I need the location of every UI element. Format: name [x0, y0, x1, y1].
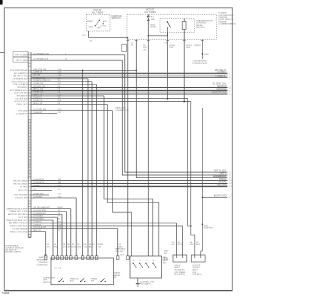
svg-text:SENSOR GND: SENSOR GND — [211, 93, 227, 95]
wire vertical x=53.0 — [52, 220, 54, 256]
PDC bottom connector stubs and labels — [126, 40, 129, 42]
svg-text:TT PRL: TT PRL — [20, 187, 28, 189]
svg-text:SYS PWR RELAY: SYS PWR RELAY — [10, 69, 28, 72]
svg-text:18 VT/WT SPL: 18 VT/WT SPL — [33, 109, 47, 111]
wire vertical x=117.7 — [117, 229, 119, 256]
svg-text:18 DG: 18 DG — [150, 27, 156, 29]
svg-text:RUN: RUN — [89, 26, 94, 28]
svg-text:4X4 LOW SW: 4X4 LOW SW — [14, 93, 28, 95]
svg-text:TRS ARM2: TRS ARM2 — [17, 86, 29, 89]
svg-text:TRS OVR ALM: TRS OVR ALM — [13, 83, 28, 86]
wire fuse to relay — [148, 20, 167, 36]
wire row to right edge y=90.9 — [31, 90, 228, 92]
relay ground wire (broken with C100 label) — [201, 39, 203, 59]
svg-text:LG/BK 19: LG/BK 19 — [33, 72, 43, 74]
wire vertical x=45.7 — [45, 232, 47, 256]
svg-text:TRT T+ CKT: TRT T+ CKT — [214, 170, 227, 172]
svg-text:JUMPER AT BLK PNP: JUMPER AT BLK PNP — [6, 207, 28, 210]
svg-text:DB 738: DB 738 — [33, 75, 41, 77]
svg-text:EVO BRAKE SOL: EVO BRAKE SOL — [10, 89, 28, 92]
svg-text:BK/LG 58: BK/LG 58 — [33, 103, 43, 105]
svg-text:TRT T- (BM): TRT T- (BM) — [16, 60, 28, 62]
svg-text:TRD SW BAT: TRD SW BAT — [14, 194, 28, 197]
wire vertical x=57.5 — [57, 217, 59, 256]
svg-text:VLV BODY): VLV BODY) — [174, 274, 185, 276]
svg-text:PRESS: PRESS — [219, 179, 227, 181]
svg-text:ALL TIMES: ALL TIMES — [92, 11, 104, 14]
svg-text:LG/: LG/ — [172, 244, 176, 246]
svg-text:(IN PDC): (IN PDC) — [196, 27, 205, 29]
wire vertical x=182.4 — [181, 226, 183, 255]
svg-text:L/R SOL PW: L/R SOL PW — [15, 198, 28, 200]
svg-text:20 ORN/BLK/LB: 20 ORN/BLK/LB — [33, 59, 49, 61]
svg-text:CONNECTOR: CONNECTOR — [115, 110, 129, 112]
wire row to right edge y=180.5 — [31, 180, 228, 182]
svg-text:2: 2 — [139, 260, 140, 262]
relay ground wire resumes to right edge row — [202, 108, 227, 197]
svg-text:1: 1 — [146, 260, 147, 262]
inline connector on ignition feed — [122, 44, 127, 51]
svg-text:OR 18 LG/BK 941: OR 18 LG/BK 941 — [33, 207, 50, 209]
label boxes for first two rows — [13, 52, 28, 57]
svg-text:PK/: PK/ — [54, 247, 58, 249]
overdrive off switch symbols — [58, 281, 59, 282]
svg-text:18 BK/WT: 18 BK/WT — [33, 112, 43, 114]
wire vertical x=96.6 — [96, 85, 98, 257]
svg-text:SW: SW — [164, 253, 167, 255]
wire: row 104.4 to TRS via corner — [107, 104, 158, 256]
svg-text:PNDL OUT: PNDL OUT — [17, 104, 28, 106]
wire vertical x=76.2 — [75, 198, 77, 256]
ground symbol G4 — [136, 283, 140, 285]
svg-text:LG: LG — [33, 189, 36, 191]
svg-text:18 DB/YL 299 2.5L: 18 DB/YL 299 2.5L — [33, 80, 51, 82]
svg-text:OD P SW: OD P SW — [18, 217, 28, 219]
svg-text:SW: SW — [91, 281, 94, 283]
svg-text:SHLD CTRL GND: SHLD CTRL GND — [10, 231, 28, 233]
relay output wires below PDC — [167, 33, 169, 100]
PCM connector strip — [27, 52, 29, 238]
svg-text:TRD NO (BM2): TRD NO (BM2) — [13, 180, 28, 182]
wire row to right edge y=87.7 — [31, 87, 228, 89]
wire row to right edge y=183.3 — [31, 182, 228, 184]
svg-text:ALL TIMES: ALL TIMES — [144, 11, 156, 14]
svg-text:START: START — [87, 20, 94, 23]
svg-text:BK/WT GND: BK/WT GND — [214, 196, 227, 198]
svg-text:GOV PR SOL: GOV PR SOL — [14, 101, 28, 103]
wire row to right edge y=73.8 — [31, 73, 228, 75]
svg-text:SPD CTL: SPD CTL — [18, 190, 28, 192]
wire: row 110.7 to TRS via corner — [113, 111, 132, 256]
svg-text:TRT T-: TRT T- — [220, 173, 227, 175]
svg-text:51996: 51996 — [2, 291, 10, 295]
relay contact — [167, 21, 168, 22]
svg-text:SENSOR: SENSOR — [217, 86, 227, 88]
wire vertical x=62.0 — [61, 214, 63, 256]
transmission control relay dashed box — [160, 19, 195, 33]
transmission range switch box — [130, 256, 162, 278]
svg-text:LG/WT4: LG/WT4 — [33, 224, 41, 226]
svg-text:OD OFF SW: OD OFF SW — [15, 98, 28, 100]
svg-text:SIGNAL: SIGNAL — [218, 181, 227, 184]
fuse F4 — [147, 14, 149, 16]
connector pin ticks — [28, 119, 31, 121]
svg-text:CONSOLE): CONSOLE) — [37, 265, 48, 267]
svg-text:OR6 V0.8 238: OR6 V0.8 238 — [33, 69, 47, 71]
svg-text:BATT/OD SW FEED: BATT/OD SW FEED — [8, 213, 28, 216]
wire row to right edge y=77.5 — [31, 77, 228, 79]
svg-text:20 ORN/BLK 941: 20 ORN/BLK 941 — [33, 53, 50, 55]
svg-text:18 OR/BK/WT: 18 OR/BK/WT — [33, 213, 47, 215]
wire row to right edge y=186.1 — [31, 185, 228, 187]
svg-text:BK/LT B: BK/LT B — [33, 230, 41, 232]
svg-text:POS SW: POS SW — [115, 251, 123, 253]
svg-text:FUSED B+: FUSED B+ — [215, 76, 227, 78]
svg-text:VT/: VT/ — [47, 247, 51, 249]
svg-text:5V SUPPLY: 5V SUPPLY — [16, 113, 28, 115]
left margin tick — [0, 51, 4, 53]
svg-text:TRT T+ (BM): TRT T+ (BM) — [15, 55, 28, 57]
frame bottom heavy line — [4, 290, 232, 292]
svg-text:OD PRESS SW: OD PRESS SW — [12, 79, 28, 81]
PDC dashed box — [127, 14, 217, 39]
svg-text:VLV BDY): VLV BDY) — [193, 274, 202, 276]
svg-text:OR/: OR/ — [190, 244, 194, 246]
solenoid connector box 1 — [173, 255, 187, 262]
svg-text:RD41: RD41 — [58, 207, 64, 209]
wire vertical x=88.0 — [87, 79, 89, 256]
svg-text:BR/YL 710: BR/YL 710 — [33, 89, 44, 91]
TRS contacts — [133, 263, 134, 264]
svg-text:TPS-OVRD SOL: TPS-OVRD SOL — [11, 81, 28, 83]
wire fuse line down (to TRS) — [147, 36, 149, 256]
svg-text:IGN SW OUT: IGN SW OUT — [213, 176, 227, 178]
wire: PDC output down then right, junction with row 70.3 — [136, 40, 227, 178]
svg-text:18 YL/BK4: 18 YL/BK4 — [33, 216, 44, 218]
svg-text:18 PK/BK: 18 PK/BK — [33, 196, 43, 198]
svg-text:PKG (BATT): PKG (BATT) — [140, 283, 151, 286]
svg-text:TRD NC (BM2): TRD NC (BM2) — [13, 183, 28, 185]
svg-text:SWITCH: SWITCH — [43, 282, 51, 284]
svg-text:A/C DAMPED: A/C DAMPED — [14, 72, 28, 75]
wire vertical x=82.6 — [82, 70, 84, 256]
svg-text:CONTROL MOD: CONTROL MOD — [192, 63, 207, 65]
svg-text:TPS (BM): TPS (BM) — [18, 110, 28, 112]
svg-text:ENGINE COMPT): ENGINE COMPT) — [5, 251, 21, 253]
svg-text:GN OR CY DO: GN OR CY DO — [13, 76, 28, 78]
svg-text:SWITCH: SWITCH — [112, 18, 121, 20]
wire from ignition switch to TRS — [89, 31, 128, 256]
wire vertical x=66.5 — [66, 212, 68, 257]
svg-text:TRS AMUS: TRS AMUS — [16, 95, 28, 98]
wire row to right edge y=94.2 — [31, 93, 228, 95]
solenoid connector box 2 — [191, 255, 205, 262]
svg-text:18 BK: 18 BK — [163, 259, 169, 261]
svg-text:OD SW SENSE: OD SW SENSE — [12, 228, 28, 230]
svg-text:COMPARTMENT): COMPARTMENT) — [219, 23, 237, 26]
terminals at shifter box top — [44, 256, 47, 260]
svg-text:18 BK/YL: 18 BK/YL — [33, 222, 43, 224]
svg-text:18 GY/WT/RD: 18 GY/WT/RD — [33, 210, 47, 212]
rows 98.7/101.5 turning down at right — [31, 99, 191, 226]
svg-text:TORQ CONV SOL: TORQ CONV SOL — [9, 226, 28, 228]
svg-text:LOCK: LOCK — [101, 26, 107, 28]
svg-text:TRANS OD LP SW: TRANS OD LP SW — [9, 210, 28, 213]
shifter assembly box — [51, 258, 114, 285]
svg-text:SW: SW — [113, 277, 116, 279]
svg-text:20A: 20A — [151, 18, 155, 21]
relay coil — [182, 22, 186, 30]
border frame — [4, 8, 232, 291]
svg-text:18 WT/BK4: 18 WT/BK4 — [33, 219, 44, 221]
svg-text:AD SHUTT SOL/W: AD SHUTT SOL/W — [9, 222, 28, 225]
wire vertical x=70.8 — [70, 209, 72, 256]
svg-text:OUTPUT: OUTPUT — [217, 72, 227, 74]
wire: row1 down then right to right-edge row — [125, 55, 228, 172]
svg-text:RETURN: RETURN — [217, 184, 227, 186]
svg-text:34: 34 — [28, 178, 30, 180]
wire vertical x=176.4 — [175, 223, 177, 255]
svg-text:ACC: ACC — [103, 20, 108, 23]
wire: row2 down then right to right-edge row — [122, 60, 227, 175]
svg-text:SW: SW — [163, 262, 166, 264]
svg-text:GY/BK SPL: GY/BK SPL — [33, 193, 45, 195]
wire vertical x=92.0 — [91, 82, 93, 256]
svg-text:OR/BK 251: OR/BK 251 — [33, 92, 44, 94]
TRS ground wire — [137, 278, 139, 284]
svg-text:TOW PKG: TOW PKG — [204, 228, 214, 230]
svg-text:BK/WT: BK/WT — [195, 45, 202, 47]
svg-text:LG: LG — [63, 247, 66, 249]
svg-text:GY/BK 721: GY/BK 721 — [33, 83, 44, 85]
svg-text:18 GY/LB 941: 18 GY/LB 941 — [33, 227, 47, 229]
ignition switch dashed box — [87, 14, 111, 31]
svg-text:TRNS TOW BUS OUT: TRNS TOW BUS OUT — [6, 220, 28, 222]
wire: row 95.9 to TRS via corner — [104, 96, 153, 256]
svg-text:DB/PK 78: DB/PK 78 — [33, 94, 43, 96]
svg-text:GROUND: GROUND — [217, 89, 227, 91]
corner registration mark — [0, 0, 3, 5]
